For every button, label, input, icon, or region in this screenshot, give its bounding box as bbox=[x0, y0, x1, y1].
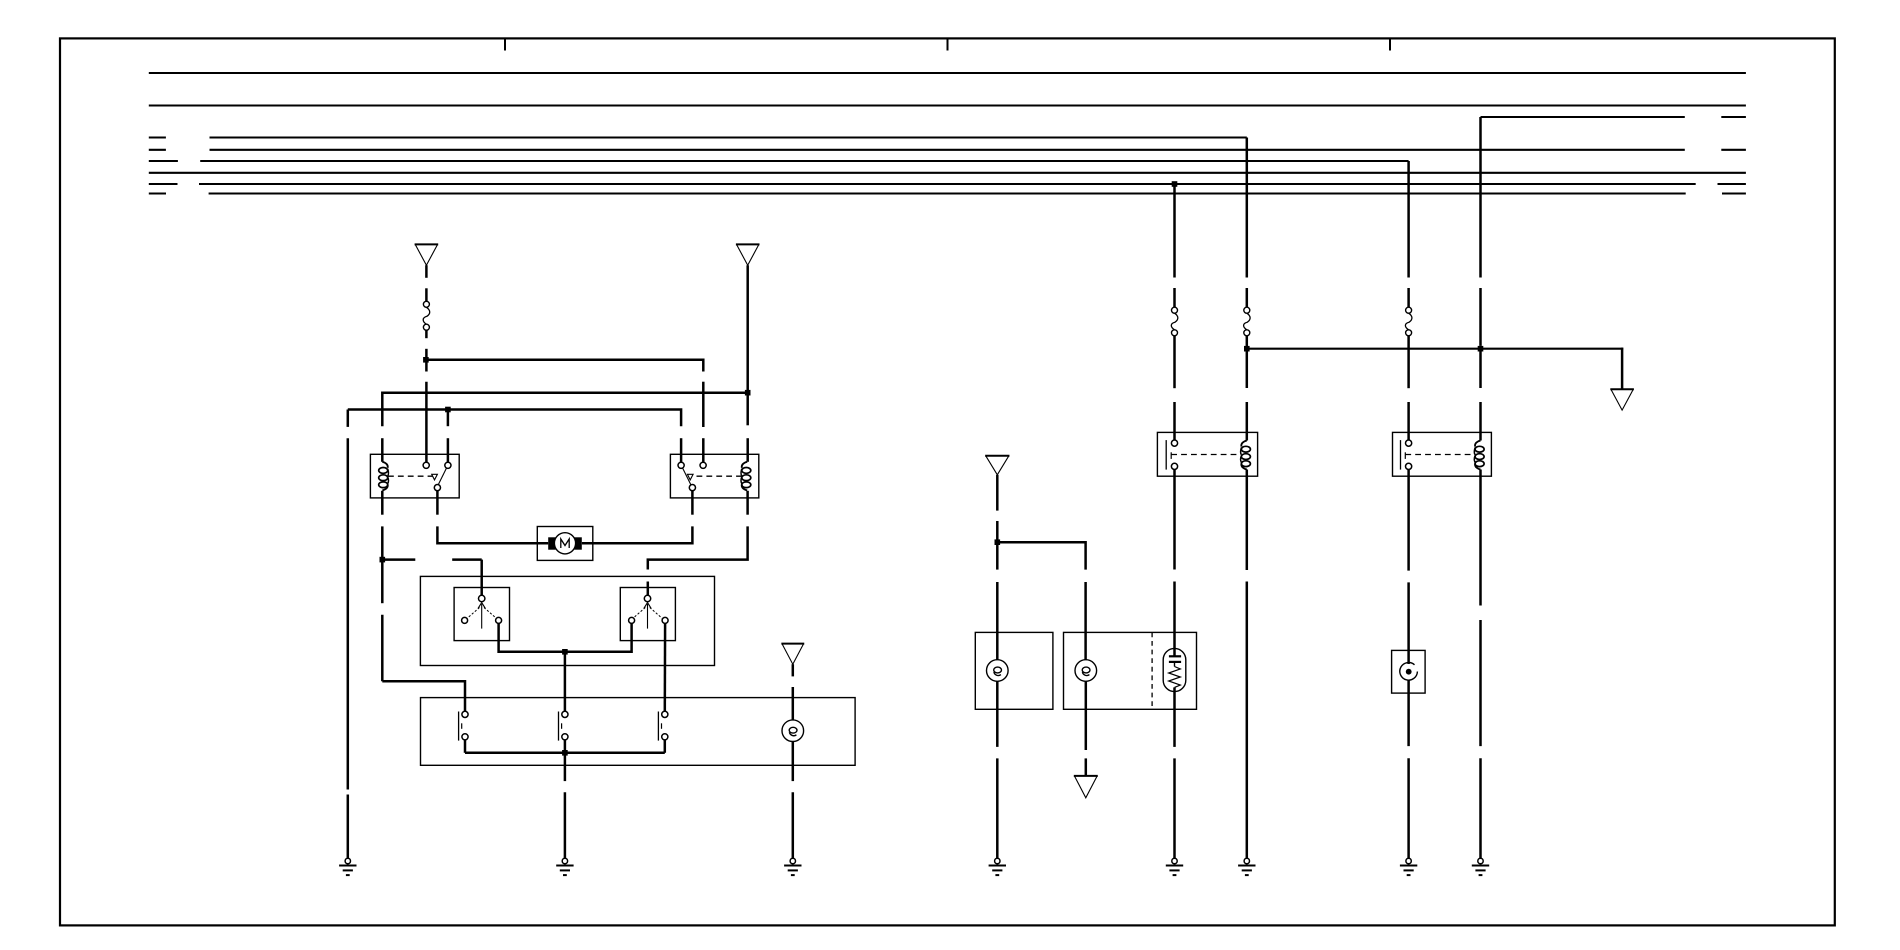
wire lamp L2 to ground bbox=[996, 681, 999, 747]
relay K1 coil bbox=[379, 462, 389, 491]
wire node A down to relay K1 contact a bbox=[425, 360, 428, 372]
wiper unit contact 3 bar bbox=[657, 712, 659, 741]
node J2 junction below fuse F2 bbox=[1244, 346, 1250, 352]
fuse F4 bbox=[1405, 307, 1412, 336]
relay K4 actuator tick bbox=[1404, 452, 1406, 459]
thermal element TH1 bbox=[1163, 648, 1186, 691]
wire S1b to wiper unit contact 3 bbox=[664, 623, 667, 711]
relay K1 contact circles bbox=[423, 462, 429, 468]
node E junction bbox=[562, 649, 568, 655]
relay K3 box bbox=[1157, 432, 1257, 476]
wire fuse F3 to relay K3 contact bbox=[1173, 336, 1176, 388]
switch box B2 bbox=[1064, 632, 1197, 709]
lamp L2 bbox=[987, 660, 1009, 682]
combination switch S1 outer box bbox=[420, 576, 714, 665]
relay K4 contact bar bbox=[1400, 440, 1402, 470]
switch S1a box bbox=[454, 588, 509, 641]
relay K2 armature bbox=[683, 468, 691, 484]
switch S1b wiper arrow bbox=[647, 604, 649, 629]
ground G3 bbox=[784, 858, 801, 875]
relay K2 dashed actuator line bbox=[697, 475, 742, 477]
wire wiper unit contact 1 to bus bbox=[464, 740, 467, 753]
wire fuse F4 to relay K4 contact bbox=[1407, 336, 1410, 388]
wire relay K2 coil to switch S1b bbox=[746, 491, 749, 515]
relay K3 coil bbox=[1241, 441, 1251, 470]
ground G7 bbox=[1400, 858, 1417, 875]
wire bus line 7 bbox=[149, 172, 1746, 174]
wire node G to lamp L3 branch bbox=[997, 542, 1085, 569]
relay K1 common circle bbox=[434, 485, 440, 491]
wiper unit contact 2 bar bbox=[558, 712, 560, 741]
relay K1 box bbox=[370, 454, 459, 498]
wire lamp L3 to connector T6 bbox=[1085, 681, 1088, 750]
wire wiper unit contact 3 to bus bbox=[664, 740, 667, 753]
wire relay K1 common to motor bbox=[436, 491, 439, 515]
wire node C down to relay K1 contact b bbox=[447, 410, 450, 427]
fuse F1 bbox=[423, 301, 430, 330]
wire fuse F1 to node A bbox=[425, 330, 428, 338]
relay K4 dashed actuator line bbox=[1405, 454, 1473, 456]
wire junction row y=348.7 bbox=[1247, 348, 1623, 350]
wiper unit contact 1 dash bbox=[461, 723, 463, 729]
connector T4 bbox=[985, 456, 1009, 475]
motor M1 brushes bbox=[548, 537, 555, 549]
wire bus line 4 bbox=[149, 136, 166, 138]
wire bus line 3 down to relay K4 coil bbox=[1479, 117, 1482, 278]
lamp L3 bbox=[1075, 660, 1097, 682]
wire relay K4 coil to ground bbox=[1479, 470, 1482, 606]
wiper unit S2 box bbox=[421, 698, 856, 766]
wiper unit contact 1 bar bbox=[458, 712, 460, 741]
relay K3 contact pin circles bbox=[1171, 440, 1177, 446]
motor M1 box bbox=[537, 527, 593, 561]
node J1 junction on bus line 8 bbox=[1172, 181, 1178, 187]
wire lamp L1 to ground bbox=[792, 741, 795, 781]
ground G5 bbox=[1166, 858, 1183, 875]
connector T5 bbox=[1610, 389, 1634, 410]
ground G8 bbox=[1472, 858, 1489, 875]
relay K4 contact pin circles bbox=[1406, 440, 1412, 446]
fuse F2 bbox=[1244, 307, 1251, 336]
ground G2 bbox=[556, 858, 573, 875]
wire T1 to fuse F1 bbox=[425, 265, 428, 278]
relay K2 coil bbox=[741, 462, 751, 491]
fuse F3 bbox=[1171, 307, 1178, 336]
wire node A to relay K2 contact b bbox=[426, 360, 703, 372]
wiper unit contact 3 dash bbox=[661, 723, 663, 729]
wire left ground drop x=347.8 bbox=[347, 410, 350, 427]
wire wiper unit contact 2 to bus bbox=[564, 740, 567, 753]
wire thermal element to ground bbox=[1173, 687, 1176, 747]
wire T3 to lamp L1 bbox=[792, 664, 795, 676]
switch S1a wiper arrow bbox=[481, 604, 483, 629]
switch S1b throw lines bbox=[633, 608, 645, 619]
wire bus line 3 (right segment) bbox=[1481, 116, 1685, 118]
motor M2 symbol bbox=[1400, 663, 1418, 681]
switch S1a contact circles bbox=[462, 617, 468, 623]
node A junction bbox=[423, 357, 429, 363]
node D junction bbox=[380, 557, 386, 563]
relay K3 dashed actuator line bbox=[1171, 454, 1239, 456]
switch S1a common circle bbox=[479, 595, 485, 601]
wire bus line 8 down to fuse F3 bbox=[1173, 184, 1176, 278]
ground G6 bbox=[1238, 858, 1255, 875]
node G junction bbox=[995, 539, 1001, 545]
relay K3 actuator tick bbox=[1170, 452, 1172, 459]
indicator box B1 bbox=[975, 632, 1053, 709]
wire relay K3 contact to thermal element bbox=[1173, 470, 1176, 570]
wire node D dashed branch to switch S1a bbox=[382, 558, 415, 561]
switch S1a throw lines bbox=[467, 608, 479, 619]
wire T4 to node G bbox=[996, 475, 999, 511]
relay K4 coil bbox=[1474, 441, 1484, 470]
switch S1b contact circles bbox=[629, 617, 635, 623]
wire ground branch y=409.5 bbox=[348, 410, 681, 427]
relay K1 dashed actuator line bbox=[388, 475, 433, 477]
connector T6 bbox=[1074, 776, 1098, 798]
node C junction bbox=[445, 407, 451, 413]
connector T2 bbox=[736, 244, 760, 265]
wiper unit contact 3 circles bbox=[662, 711, 668, 717]
node F junction bbox=[562, 750, 568, 756]
node B junction bbox=[745, 390, 751, 396]
wire bus line 8 bbox=[149, 183, 178, 185]
switch S1b common circle bbox=[644, 595, 650, 601]
wire relay K1 coil to node D bbox=[381, 491, 384, 515]
relay K3 contact bar bbox=[1165, 440, 1167, 470]
relay K2 contact circles bbox=[678, 462, 684, 468]
lamp L1 bbox=[782, 720, 804, 742]
wire relay K3 coil to ground bbox=[1246, 470, 1249, 571]
ground G4 bbox=[989, 858, 1006, 875]
relay K1 armature arrow bbox=[432, 474, 438, 480]
motor M2 box bbox=[1392, 650, 1426, 693]
ground G1 bbox=[339, 858, 356, 875]
wire bus line 9 bbox=[149, 192, 166, 194]
relay K2 armature arrow bbox=[687, 474, 693, 480]
node J3 junction on x=1480.5 bbox=[1478, 346, 1484, 352]
relay K4 box bbox=[1393, 432, 1492, 476]
wire corner down to connector T5 bbox=[1621, 348, 1624, 390]
wire node D down to wiper unit contact 1 bbox=[381, 560, 384, 604]
switch S1b box bbox=[620, 588, 675, 641]
wire relay K2 common to motor bbox=[691, 491, 694, 515]
connector T1 bbox=[415, 244, 439, 265]
wire bus line 6 bbox=[149, 160, 178, 162]
relay K2 common circle bbox=[689, 485, 695, 491]
wire node G down to lamp L2 bbox=[996, 542, 999, 569]
wire node F to ground bbox=[564, 753, 567, 781]
wire node B to relay K1 coil bbox=[382, 393, 747, 427]
wiper unit contact 1 circles bbox=[462, 711, 468, 717]
wire T2 down to node B bbox=[746, 265, 749, 393]
wire S1a to S1b link bbox=[499, 623, 632, 651]
wire node B to relay K2 coil bbox=[746, 393, 749, 426]
wire node E down to wiper unit contact 2 bbox=[564, 652, 567, 711]
wire wiper unit internal bus bbox=[465, 752, 665, 755]
relay K1 armature bbox=[438, 468, 446, 484]
motor M1 body bbox=[554, 533, 575, 554]
switch box B2 partition bbox=[1151, 632, 1153, 709]
wire fuse F2 to relay K3 coil bbox=[1246, 336, 1249, 388]
wire motor M2 to ground bbox=[1407, 680, 1410, 747]
wire bus line 5 bbox=[149, 149, 166, 151]
wiper unit contact 2 circles bbox=[562, 711, 568, 717]
connector T3 bbox=[781, 644, 804, 665]
wire bus line 1 bbox=[149, 72, 1746, 74]
wire relay K4 contact to motor M2 bbox=[1407, 470, 1410, 571]
wiper unit contact 2 dash bbox=[561, 723, 563, 729]
wire bus line 2 bbox=[149, 104, 1746, 106]
wire bus line 6 down to fuse F4 bbox=[1407, 161, 1410, 278]
relay K2 box bbox=[670, 454, 758, 498]
wire from bus line 4 down to fuse F2 bbox=[1246, 138, 1249, 278]
